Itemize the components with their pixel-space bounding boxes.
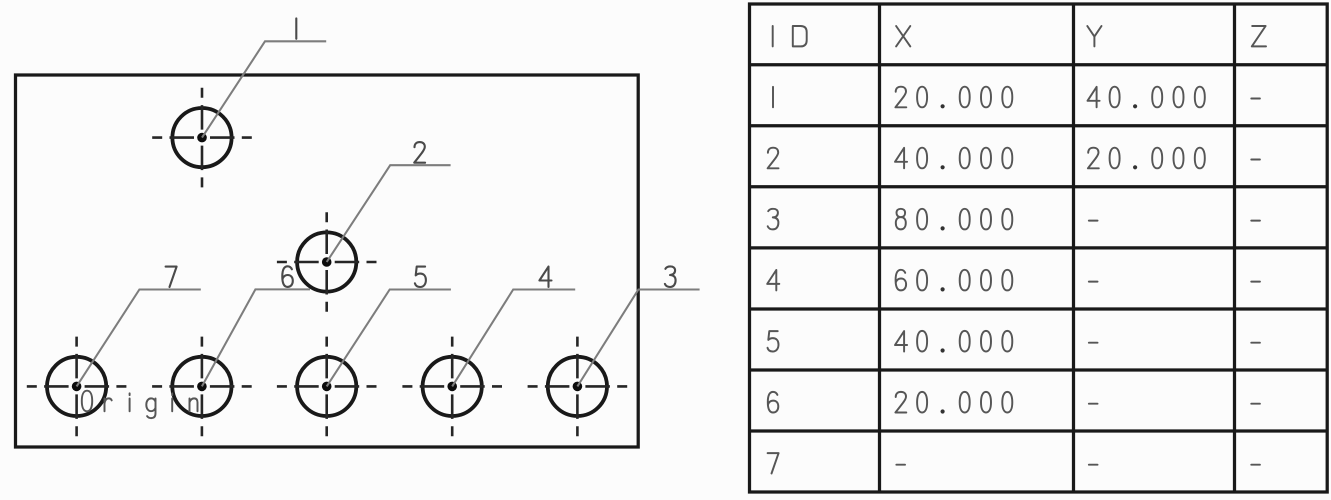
label digit 4: [539, 267, 551, 287]
hole 4 centerline: [402, 337, 502, 437]
leader line 3: [577, 290, 699, 387]
leader line 1: [202, 41, 326, 137]
leader line 7: [77, 290, 201, 387]
leader line 5: [327, 290, 451, 387]
hole 1 centerline: [152, 88, 252, 188]
label digit 2: [414, 142, 425, 163]
table row 4: [767, 270, 1260, 292]
label digit 1: [295, 18, 297, 38]
hole 5 circle: [297, 357, 356, 416]
table row 2: [768, 148, 1260, 170]
leader line 4: [452, 290, 575, 387]
hole 1 center point: [197, 133, 207, 143]
label digit 5: [415, 267, 426, 287]
hole 3 circle: [548, 357, 607, 416]
hole 7 centerline: [27, 337, 127, 437]
hole 2 center point: [322, 257, 332, 267]
table row 6: [768, 392, 1260, 414]
hole 4 circle: [423, 357, 482, 416]
leader line 6: [202, 289, 310, 386]
hole 3 centerline: [528, 337, 628, 437]
hole 5 center point: [322, 382, 332, 392]
hole 5 centerline: [277, 337, 377, 437]
hole 6 centerline: [152, 337, 252, 437]
hole 7 circle: [47, 357, 106, 416]
hole 1 circle: [172, 108, 231, 167]
hole 2 circle: [297, 232, 356, 291]
label digit 6: [282, 266, 293, 287]
hole 4 center point: [447, 382, 457, 392]
table row 3: [768, 209, 1260, 231]
table header Z: [1252, 26, 1266, 46]
table header X: [896, 26, 910, 46]
table header Y: [1087, 26, 1101, 46]
hole 6 center point: [197, 382, 207, 392]
hole 3 center point: [573, 382, 583, 392]
hole 2 centerline: [277, 212, 377, 312]
hole 7 center point: [72, 382, 82, 392]
label digit 3: [665, 266, 676, 287]
plate outline: [16, 75, 639, 447]
leader line 2: [327, 165, 451, 262]
hole 6 circle: [172, 357, 231, 416]
table grid: [750, 4, 1328, 492]
table row 5: [768, 331, 1260, 353]
table row 7: [768, 453, 1260, 473]
label digit 7: [166, 267, 177, 287]
Origin text: [82, 391, 198, 418]
table row 1: [773, 87, 1260, 109]
table header ID: [773, 26, 807, 46]
